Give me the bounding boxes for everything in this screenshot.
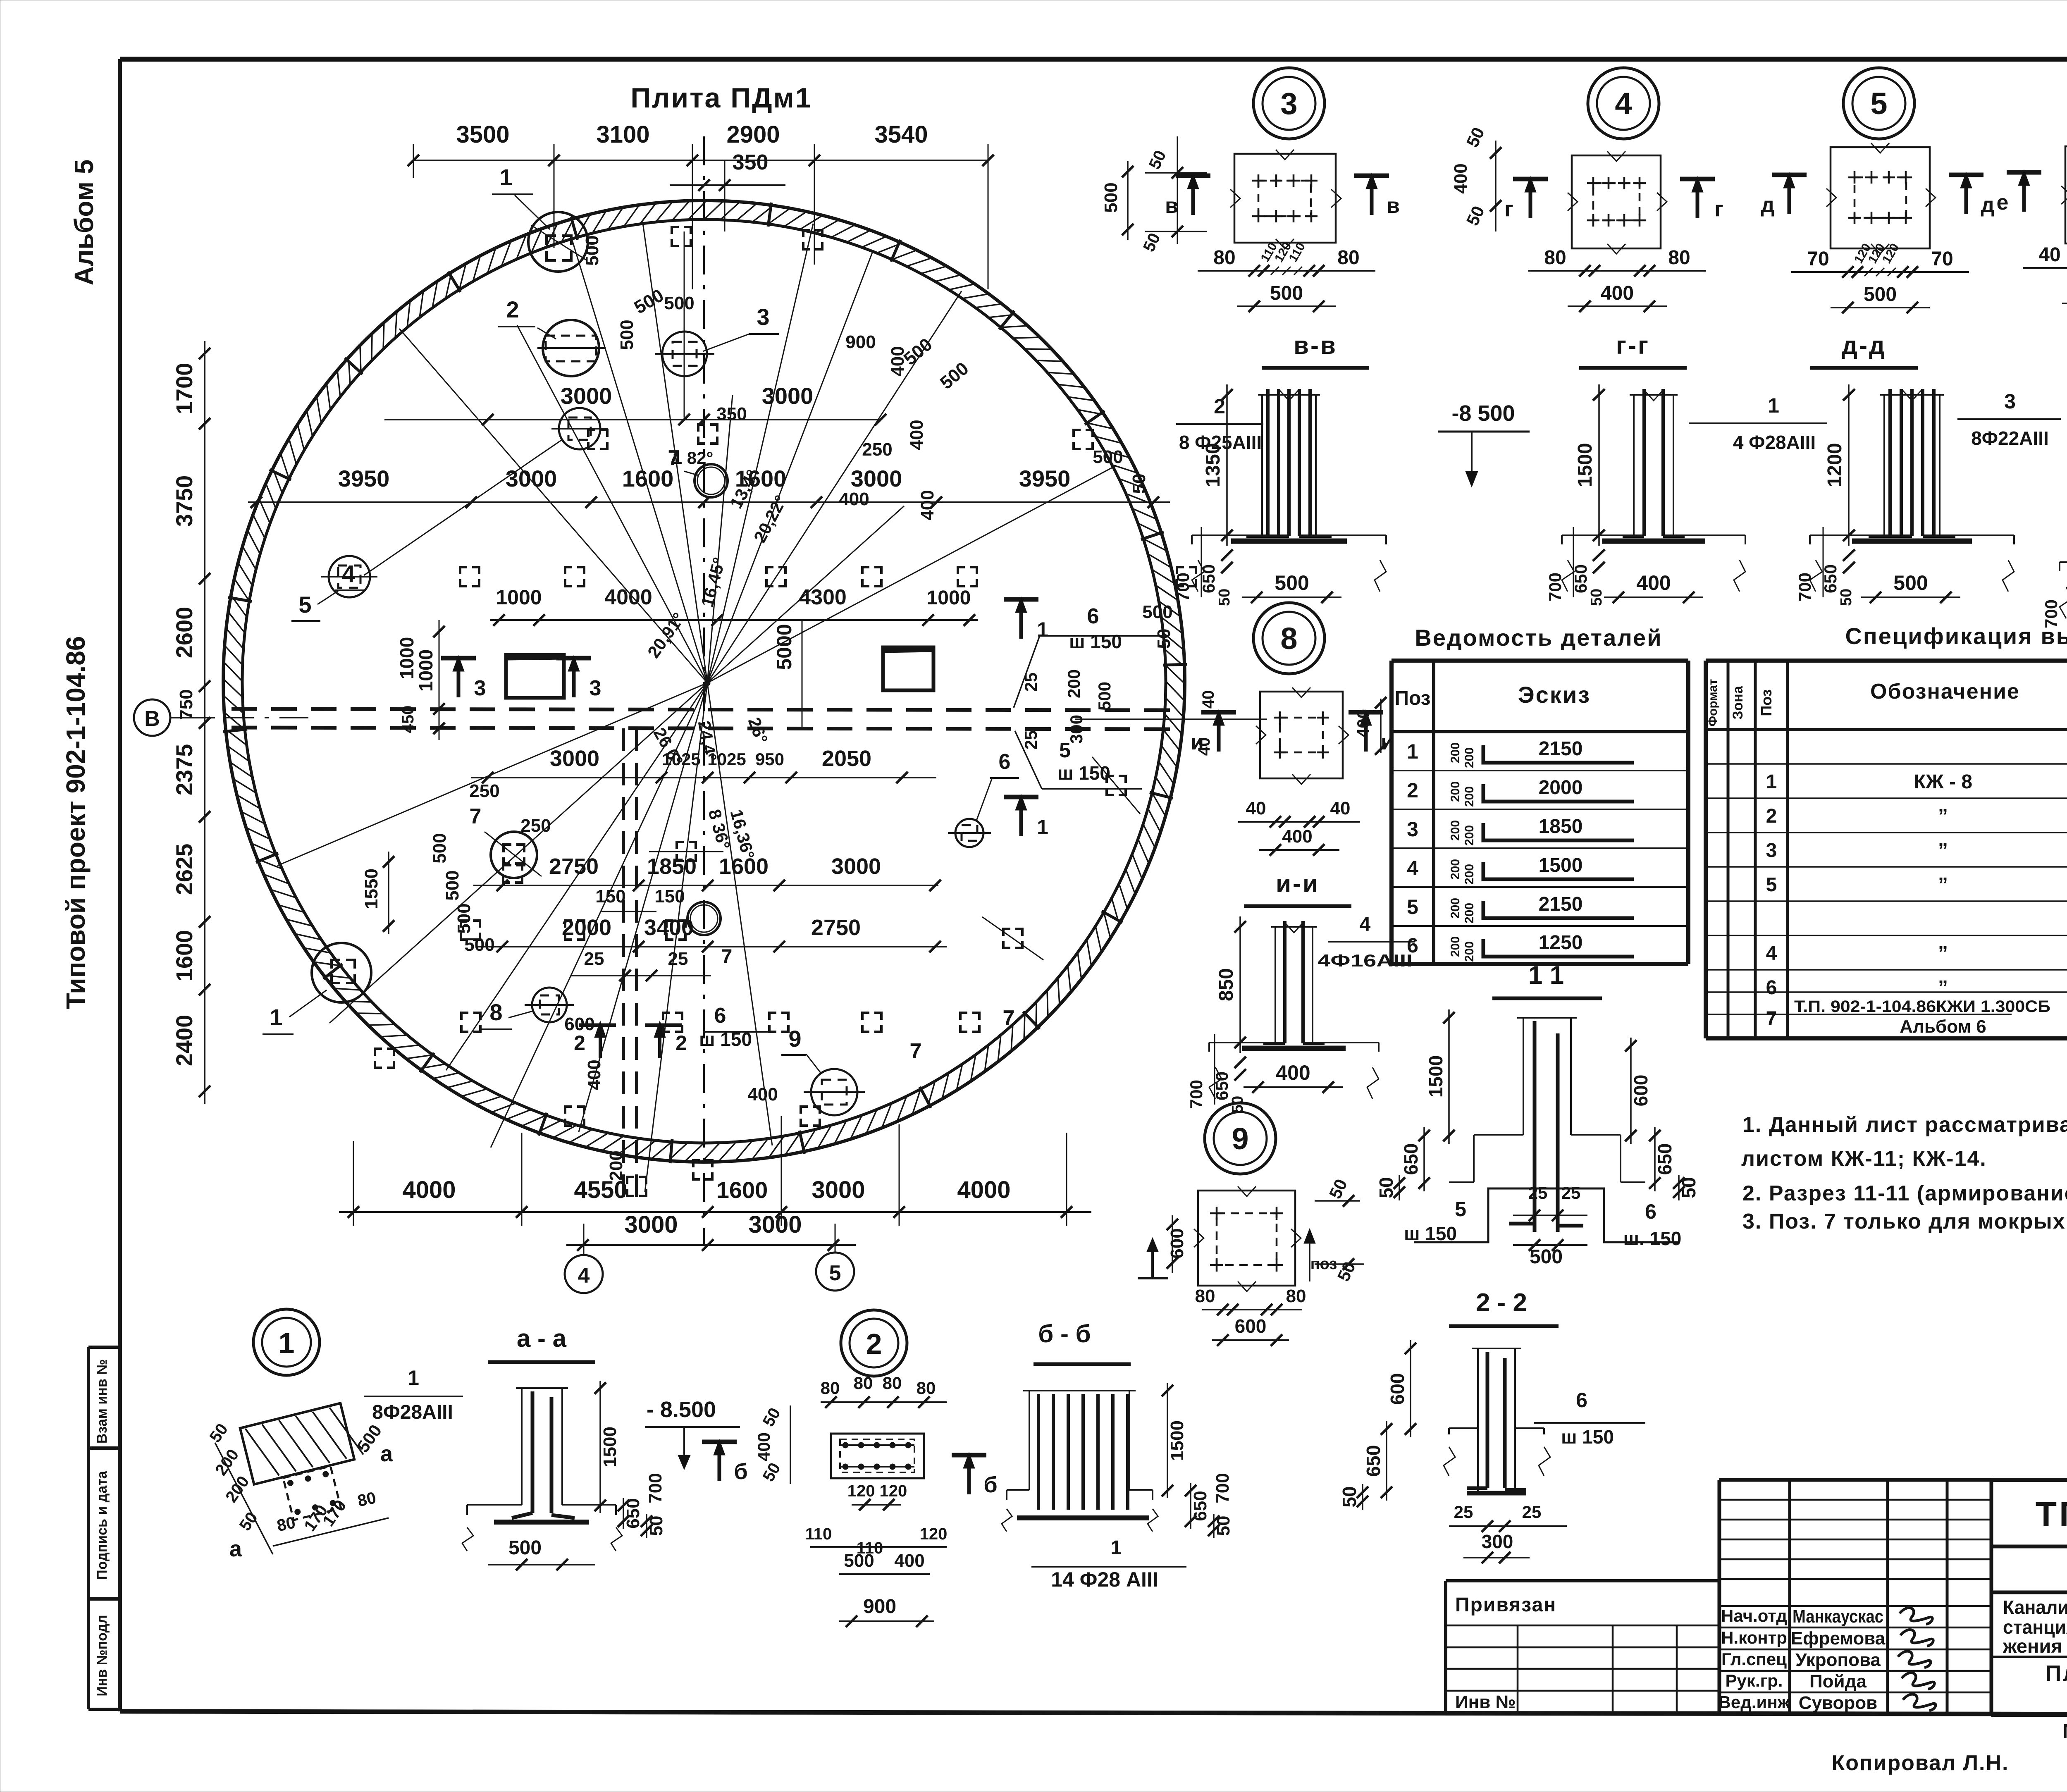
callout 7 circle upper-left: [491, 832, 537, 878]
detail circle 4: [1588, 68, 1659, 139]
svg-text:400: 400: [754, 1432, 773, 1461]
svg-text:1: 1: [1111, 1537, 1122, 1559]
svg-text:600: 600: [564, 1014, 594, 1034]
svg-text:листом КЖ-11; КЖ-14.: листом КЖ-11; КЖ-14.: [1741, 1147, 1987, 1171]
svg-text:Н.контр: Н.контр: [1721, 1628, 1787, 1647]
svg-text:25: 25: [1522, 1502, 1542, 1522]
svg-text:2150: 2150: [1539, 893, 1583, 915]
б-б body: [1029, 1391, 1030, 1490]
svg-text:3000: 3000: [831, 854, 881, 879]
svg-text:1600: 1600: [622, 465, 674, 492]
opening right: [883, 647, 933, 690]
dims under detail: [1791, 271, 1969, 273]
svg-text:500: 500: [617, 320, 637, 350]
svg-text:Рук.гр.: Рук.гр.: [1726, 1671, 1783, 1690]
svg-text:200: 200: [1463, 864, 1476, 885]
svg-text:25: 25: [1021, 673, 1041, 692]
horizontal wall dashed line lower: [232, 728, 1179, 729]
left gost column: [88, 1347, 120, 1709]
svg-text:Альбом 6: Альбом 6: [1900, 1017, 1986, 1037]
detail 1 rotated plan: [240, 1401, 375, 1527]
svg-text:400: 400: [917, 490, 938, 520]
spec table frame: [1706, 659, 2067, 663]
svg-text:2750: 2750: [549, 854, 599, 879]
svg-text:”: ”: [1938, 977, 1948, 999]
privyazan block: [1446, 1579, 1719, 1582]
svg-text:25: 25: [1528, 1183, 1548, 1203]
svg-text:и-и: и-и: [1276, 870, 1320, 897]
svg-text:5: 5: [1407, 895, 1418, 919]
svg-text:3000: 3000: [762, 383, 814, 409]
svg-text:1. Данный лист рассматривать: 1. Данный лист рассматривать совместно с: [1742, 1113, 2067, 1137]
pipe circle top: [695, 464, 728, 497]
svg-text:500: 500: [430, 833, 450, 863]
svg-text:1000: 1000: [927, 587, 971, 609]
svg-text:450: 450: [399, 706, 417, 733]
svg-text:150: 150: [654, 886, 685, 907]
detail circle 9: [1205, 1103, 1276, 1174]
svg-text:Инв №: Инв №: [1455, 1692, 1516, 1712]
hub: [704, 680, 710, 686]
svg-text:1: 1: [1407, 740, 1418, 763]
svg-text:200: 200: [1463, 747, 1476, 768]
svg-text:1550: 1550: [361, 869, 382, 909]
svg-text:8: 8: [489, 999, 502, 1025]
svg-text:25: 25: [668, 949, 688, 969]
svg-text:3: 3: [757, 304, 769, 330]
svg-text:650: 650: [623, 1498, 643, 1528]
leader T symbols right side: [1004, 597, 1038, 602]
svg-text:40: 40: [1246, 798, 1266, 818]
svg-text:25: 25: [1454, 1502, 1473, 1522]
svg-text:3: 3: [1766, 840, 1777, 861]
svg-text:200: 200: [1449, 742, 1462, 763]
vertical grid centerline: [703, 136, 705, 1244]
svg-text:250: 250: [520, 816, 551, 836]
svg-text:5: 5: [1870, 86, 1887, 121]
dims under detail: [1528, 270, 1706, 272]
svg-text:500: 500: [582, 235, 602, 265]
svg-text:50: 50: [1838, 589, 1855, 606]
svg-text:200: 200: [1449, 898, 1462, 919]
svg-text:350: 350: [733, 150, 769, 174]
svg-text:80: 80: [883, 1373, 902, 1393]
left dims: [204, 341, 205, 1104]
svg-text:200: 200: [1463, 903, 1476, 923]
svg-text:2: 2: [574, 1031, 585, 1055]
svg-text:500: 500: [844, 1551, 874, 1571]
ring hatching: [223, 200, 1185, 1162]
svg-text:Т.П. 902-1-104.86КЖИ 1.300СБ: Т.П. 902-1-104.86КЖИ 1.300СБ: [1794, 997, 2050, 1016]
svg-text:в-в: в-в: [1294, 332, 1337, 359]
callout 6 small: [955, 819, 983, 847]
dims under detail: [2023, 267, 2067, 269]
t-section detail: [1275, 927, 1276, 1043]
svg-text:400: 400: [894, 1551, 924, 1571]
anchor bracket marks: [672, 227, 679, 234]
vertical dashed wall pair: [622, 728, 625, 1197]
svg-text:6: 6: [999, 750, 1011, 774]
svg-text:”: ”: [1938, 874, 1948, 896]
svg-text:400: 400: [839, 489, 869, 509]
svg-text:650: 650: [1363, 1445, 1384, 1477]
ring joints: [223, 203, 1187, 1163]
title block right part: [1991, 1478, 2067, 1482]
svg-text:500: 500: [1095, 682, 1114, 711]
svg-text:3540: 3540: [874, 121, 928, 148]
detail circle 8: [1253, 603, 1325, 674]
svg-text:Эскиз: Эскиз: [1518, 682, 1591, 708]
svg-text:б: б: [734, 1459, 747, 1484]
detail 2 dims: [821, 1401, 947, 1403]
svg-text:ш 150: ш 150: [1069, 631, 1122, 652]
svg-text:a: a: [229, 1537, 242, 1561]
section 1-1 detail: [1523, 1018, 1524, 1135]
svg-text:2625: 2625: [171, 844, 197, 895]
svg-text:300: 300: [1482, 1531, 1513, 1552]
grid bubble В: [134, 699, 170, 736]
svg-text:МФ 2140-06: МФ 2140-06: [2062, 1720, 2067, 1743]
svg-text:- 8.500: - 8.500: [647, 1397, 716, 1422]
svg-text:1850: 1850: [1539, 816, 1583, 838]
svg-text:4: 4: [1615, 86, 1632, 121]
svg-text:Копировал Л.Н.: Копировал Л.Н.: [1831, 1751, 2009, 1775]
t-section detail: [1261, 395, 1263, 535]
plan square detail г: [1572, 155, 1661, 248]
svg-text:500: 500: [1530, 1246, 1563, 1268]
svg-text:-8 500: -8 500: [1451, 401, 1515, 426]
svg-text:Ефремова: Ефремова: [1791, 1628, 1886, 1649]
svg-text:50: 50: [1216, 589, 1233, 606]
svg-text:Вед.инж: Вед.инж: [1719, 1692, 1790, 1712]
svg-text:600: 600: [1387, 1373, 1408, 1405]
svg-text:е: е: [1997, 191, 2009, 215]
svg-text:Типовой проект 902-1-104.86: Типовой проект 902-1-104.86: [61, 636, 91, 1009]
svg-text:3000: 3000: [550, 746, 599, 771]
svg-text:в: в: [1165, 194, 1178, 218]
svg-text:в: в: [1387, 194, 1400, 218]
svg-text:1: 1: [1766, 771, 1777, 793]
svg-text:г: г: [1504, 197, 1513, 221]
svg-text:400: 400: [907, 420, 927, 450]
svg-text:9: 9: [788, 1026, 801, 1052]
plan square detail д: [1831, 147, 1930, 248]
svg-text:200: 200: [1463, 786, 1476, 807]
svg-text:500: 500: [664, 293, 694, 313]
slab ring inner: [242, 220, 1166, 1143]
svg-text:3750: 3750: [171, 475, 197, 527]
2-2 dims: [1410, 1340, 1411, 1437]
svg-text:4000: 4000: [402, 1176, 456, 1203]
svg-text:Укропова: Укропова: [1795, 1650, 1881, 1670]
svg-text:750: 750: [176, 689, 196, 719]
dims 1000 4000 4300 1000 row: [490, 619, 978, 621]
svg-text:5: 5: [298, 592, 311, 618]
svg-text:4: 4: [578, 1264, 590, 1288]
svg-text:Пойда: Пойда: [1809, 1671, 1867, 1692]
svg-text:80: 80: [1213, 247, 1235, 269]
svg-text:1: 1: [1037, 618, 1048, 641]
signatures squiggles: [1900, 1608, 1932, 1624]
svg-text:г: г: [1714, 197, 1723, 221]
bracket marks with cross line: [677, 842, 684, 849]
svg-text:900: 900: [863, 1596, 896, 1618]
svg-text:40: 40: [1199, 690, 1217, 709]
svg-text:2750: 2750: [811, 915, 861, 940]
svg-text:2 - 2: 2 - 2: [1476, 1289, 1527, 1317]
svg-text:50: 50: [1213, 1516, 1234, 1536]
top dims: [413, 160, 988, 161]
svg-text:6: 6: [1766, 977, 1777, 999]
radial layout lines: [277, 220, 1116, 1192]
svg-text:жения коллектора -4,0 м: жения коллектора -4,0 м: [2003, 1635, 2067, 1657]
svg-text:700: 700: [1213, 1473, 1233, 1503]
svg-text:9: 9: [1232, 1121, 1248, 1156]
svg-text:3: 3: [474, 676, 486, 700]
svg-text:7: 7: [470, 804, 482, 828]
svg-text:2: 2: [1766, 805, 1777, 827]
svg-text:2050: 2050: [822, 746, 871, 771]
svg-text:1: 1: [1768, 394, 1779, 417]
svg-text:поз: поз: [1310, 1255, 1337, 1273]
svg-text:400: 400: [1276, 1061, 1310, 1084]
svg-text:3500: 3500: [456, 121, 509, 148]
svg-text:500: 500: [442, 870, 463, 900]
svg-text:6: 6: [1087, 604, 1099, 628]
svg-text:900: 900: [845, 332, 876, 352]
svg-text:В: В: [144, 707, 160, 731]
detail circle 2: [841, 1310, 907, 1376]
svg-text:1025: 1025: [707, 749, 746, 769]
svg-text:400: 400: [1451, 163, 1471, 193]
svg-text:80: 80: [1544, 247, 1566, 269]
svg-text:80: 80: [1337, 247, 1359, 269]
svg-text:”: ”: [1938, 805, 1948, 827]
dims 25 25: [570, 975, 711, 976]
svg-text:3. Поз. 7 только для мокрых: 3. Поз. 7 только для мокрых грунтов.: [1742, 1210, 2067, 1234]
svg-text:1600: 1600: [719, 854, 769, 879]
callout 3: [662, 332, 707, 376]
svg-text:400: 400: [747, 1084, 778, 1105]
svg-text:3000: 3000: [561, 383, 612, 409]
svg-text:б - б: б - б: [1038, 1320, 1091, 1348]
dims 2750 1850 1600 3000 row: [473, 885, 938, 886]
svg-text:2. Разрез 11-11 (армирование: 2. Разрез 11-11 (армирование см. лист КЖ…: [1742, 1181, 2067, 1205]
svg-text:80: 80: [917, 1378, 936, 1398]
svg-text:1: 1: [279, 1327, 295, 1359]
svg-text:1: 1: [270, 1004, 282, 1030]
svg-text:ш 150: ш 150: [1404, 1223, 1457, 1244]
svg-text:4Ф16АIII: 4Ф16АIII: [1318, 951, 1413, 970]
svg-text:80: 80: [821, 1378, 840, 1398]
svg-text:700: 700: [1186, 1080, 1206, 1109]
svg-text:200: 200: [606, 1150, 626, 1181]
svg-text:7: 7: [721, 946, 733, 968]
callout 9 plan: [811, 1069, 857, 1115]
svg-text:1250: 1250: [1539, 932, 1583, 954]
svg-text:б: б: [983, 1472, 997, 1497]
svg-text:700: 700: [1173, 573, 1193, 601]
dims under detail: [1198, 270, 1375, 272]
svg-text:Спецификация выпусков ПДм1: Спецификация выпусков ПДм1: [1845, 623, 2067, 649]
svg-text:6: 6: [1407, 934, 1418, 957]
svg-text:3000: 3000: [851, 465, 902, 492]
svg-text:50: 50: [1339, 1486, 1360, 1507]
svg-text:2: 2: [1407, 779, 1418, 802]
callout 5: [329, 556, 370, 597]
vedomost table: [1392, 659, 1688, 663]
svg-text:200: 200: [1064, 669, 1084, 698]
horizontal wall dashed line upper: [232, 709, 1179, 710]
svg-text:2150: 2150: [1539, 738, 1583, 760]
svg-text:50: 50: [1129, 474, 1149, 494]
svg-text:70: 70: [1931, 248, 1953, 270]
svg-text:Подпись и дата: Подпись и дата: [94, 1470, 110, 1580]
svg-text:д: д: [1981, 193, 1994, 217]
svg-text:600: 600: [1235, 1315, 1267, 1337]
svg-text:Канализационная насосная: Канализационная насосная: [2003, 1596, 2067, 1618]
svg-text:50: 50: [1678, 1177, 1699, 1198]
svg-text:Нач.отд: Нач.отд: [1721, 1606, 1787, 1625]
svg-text:6: 6: [1645, 1200, 1656, 1223]
callout 4: [559, 408, 600, 449]
slab ring outer: [223, 200, 1185, 1162]
svg-text:80: 80: [1195, 1286, 1215, 1306]
поз arrow detail9: [1151, 1244, 1154, 1278]
grid bubble 4: [565, 1255, 603, 1293]
svg-text:6: 6: [1576, 1389, 1587, 1412]
svg-text:500: 500: [1893, 571, 1928, 594]
svg-text:500: 500: [1864, 284, 1897, 305]
svg-text:2375: 2375: [171, 744, 197, 796]
svg-text:2: 2: [506, 296, 519, 322]
t-section detail: [1633, 395, 1635, 535]
svg-text:200: 200: [1463, 941, 1476, 962]
svg-text:3: 3: [1407, 818, 1418, 841]
svg-text:700: 700: [1545, 573, 1565, 601]
svg-text:70: 70: [1807, 248, 1829, 270]
svg-text:200: 200: [1463, 825, 1476, 846]
svg-text:650: 650: [1654, 1143, 1676, 1175]
svg-text:Суворов: Суворов: [1799, 1693, 1877, 1713]
svg-text:3950: 3950: [1019, 465, 1071, 492]
svg-text:5: 5: [829, 1261, 841, 1285]
svg-text:40: 40: [1330, 798, 1351, 818]
svg-text:80: 80: [1286, 1286, 1306, 1306]
svg-text:80: 80: [275, 1513, 297, 1535]
svg-text:Гл.спец: Гл.спец: [1721, 1649, 1787, 1669]
plan square detail е: [2065, 146, 2067, 243]
svg-text:50: 50: [646, 1516, 666, 1536]
svg-text:50: 50: [1154, 629, 1174, 649]
svg-text:200: 200: [1449, 859, 1462, 880]
dims 3000 1025 1025 950 2050 row: [471, 777, 936, 778]
svg-text:1: 1: [1037, 816, 1048, 839]
svg-text:Формат: Формат: [1706, 679, 1720, 726]
svg-text:200: 200: [1449, 781, 1462, 802]
svg-text:400: 400: [1353, 709, 1373, 738]
svg-text:3100: 3100: [596, 121, 649, 148]
plan square detail и: [1260, 692, 1343, 778]
svg-text:5000: 5000: [773, 624, 796, 670]
svg-text:700: 700: [1795, 573, 1814, 601]
svg-text:950: 950: [755, 749, 784, 769]
svg-text:1025: 1025: [662, 749, 700, 769]
svg-text:1000: 1000: [496, 586, 542, 609]
svg-text:5: 5: [1455, 1198, 1466, 1221]
svg-text:1000: 1000: [396, 637, 418, 679]
svg-text:700: 700: [645, 1473, 666, 1503]
horizontal centerline: [170, 717, 314, 718]
svg-text:500: 500: [1101, 182, 1121, 212]
svg-text:Ведомость деталей: Ведомость деталей: [1415, 625, 1662, 651]
svg-text:200: 200: [1449, 936, 1462, 957]
svg-text:a - a: a - a: [517, 1324, 567, 1352]
svg-text:500: 500: [1093, 447, 1123, 467]
svg-text:350: 350: [716, 404, 747, 424]
svg-text:400: 400: [584, 1059, 604, 1090]
svg-text:КЖ - 8: КЖ - 8: [1914, 771, 1972, 793]
1-1 dims right: [1630, 1038, 1632, 1144]
svg-text:500: 500: [1142, 602, 1172, 622]
svg-text:5: 5: [1766, 874, 1777, 896]
svg-text:25: 25: [1021, 730, 1041, 750]
svg-text:2: 2: [1214, 395, 1225, 418]
svg-text:2: 2: [866, 1328, 882, 1360]
svg-text:1000: 1000: [415, 649, 437, 692]
svg-text:500: 500: [508, 1537, 542, 1559]
callout 1 top: [528, 212, 588, 272]
t-section detail: [1883, 395, 1885, 535]
svg-text:1: 1: [499, 164, 512, 190]
svg-text:4300: 4300: [799, 585, 847, 609]
svg-text:ш 150: ш 150: [1057, 762, 1110, 784]
svg-text:1500: 1500: [600, 1427, 620, 1467]
detail circle 1: [253, 1309, 320, 1375]
svg-text:120 120: 120 120: [847, 1482, 907, 1500]
svg-text:3: 3: [2004, 390, 2016, 413]
callout 8: [532, 988, 567, 1022]
svg-text:1850: 1850: [647, 854, 697, 879]
section cut 2 marks: [579, 1024, 616, 1027]
callout 1 bottom ring: [312, 943, 371, 1002]
svg-text:3950: 3950: [338, 465, 390, 492]
svg-text:200: 200: [1449, 820, 1462, 841]
svg-text:ТП 902-1-104.86 — КЖ: ТП 902-1-104.86 — КЖ: [2036, 1495, 2067, 1534]
1-1 dims left: [1448, 1009, 1450, 1144]
svg-text:2400: 2400: [171, 1015, 197, 1067]
svg-text:3000: 3000: [812, 1176, 865, 1203]
svg-text:650: 650: [1190, 1491, 1210, 1521]
svg-text:г-г: г-г: [1616, 332, 1650, 359]
svg-text:500: 500: [1275, 571, 1309, 594]
svg-text:д: д: [1761, 193, 1774, 217]
svg-text:станция при глубине зало-: станция при глубине зало-: [2003, 1616, 2067, 1638]
svg-text:14 Ф28 АIII: 14 Ф28 АIII: [1051, 1568, 1158, 1591]
svg-text:1500: 1500: [1539, 854, 1583, 876]
opening left: [506, 655, 564, 698]
plan square detail в: [1234, 154, 1336, 243]
svg-text:250: 250: [469, 781, 499, 801]
svg-text:1700: 1700: [171, 363, 197, 415]
svg-text:1600: 1600: [735, 465, 787, 492]
svg-text:7: 7: [668, 446, 680, 470]
svg-text:Альбом 5: Альбом 5: [69, 160, 99, 286]
svg-text:Привязан: Привязан: [1455, 1594, 1556, 1616]
svg-text:1500: 1500: [1425, 1055, 1446, 1098]
svg-text:3000: 3000: [624, 1211, 678, 1238]
svg-text:a: a: [380, 1441, 393, 1466]
